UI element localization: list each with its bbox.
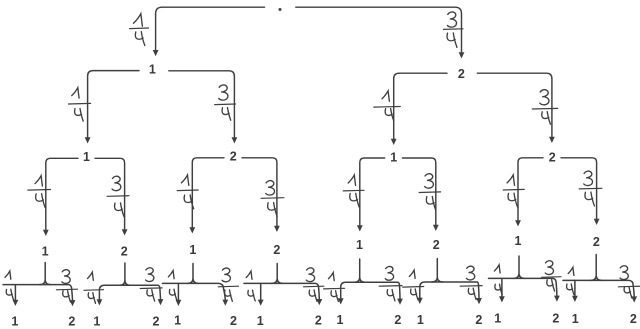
- wire root left branch: [153, 7, 265, 56]
- svg-text:1: 1: [572, 312, 579, 326]
- label P=1/4 level2#2-left: [177, 175, 198, 209]
- svg-text:1: 1: [189, 243, 196, 257]
- wire level3#1 bar+arrows: [3, 285, 75, 307]
- label P=1/4 level3#3-left: [168, 271, 176, 300]
- svg-text:2: 2: [549, 151, 556, 165]
- svg-text:2: 2: [630, 312, 637, 326]
- label P=1/4 node1-left: [69, 88, 91, 121]
- wire level2#1 right branch: [95, 158, 128, 235]
- label P=3/4 level3#7-right: [542, 261, 561, 291]
- svg-text:2: 2: [315, 314, 322, 328]
- wire level3#1 stub: [40, 263, 51, 285]
- label P=3/4 node2-right: [532, 90, 557, 125]
- label P=1/4 level2#4-left: [503, 175, 524, 207]
- svg-text:2: 2: [433, 238, 440, 252]
- wire level2#2 left branch: [189, 158, 224, 234]
- wire level3#5 stub: [354, 259, 365, 282]
- svg-text:2: 2: [153, 315, 160, 329]
- wire level3#6 stub: [432, 259, 443, 283]
- wire root right branch: [296, 7, 465, 58]
- wire level3#8 stub: [591, 255, 602, 281]
- label P=3/4 level3#5-right: [379, 266, 402, 300]
- label P=3/4 root-right: [444, 12, 464, 47]
- svg-text:2: 2: [552, 312, 559, 326]
- svg-text:1: 1: [174, 314, 181, 328]
- wire level3#2 bar+arrows: [97, 285, 164, 305]
- svg-text:2: 2: [230, 150, 237, 164]
- label P=3/4 level2#2-right: [261, 181, 284, 217]
- wire level2#3 right branch: [403, 158, 439, 231]
- svg-text:2: 2: [121, 244, 128, 258]
- wire level3#8 bar+arrows: [563, 280, 637, 302]
- wire level2#4 left branch: [515, 158, 543, 227]
- wire level3#2 stub: [119, 263, 130, 285]
- wire node1 left branch: [85, 71, 139, 144]
- svg-text:2: 2: [273, 243, 280, 257]
- wire node2 left branch: [391, 73, 447, 145]
- label P=3/4 level2#4-right: [579, 171, 602, 206]
- wire level2#1 left branch: [43, 158, 78, 236]
- svg-text:2: 2: [394, 313, 401, 327]
- wire level3#4 stub: [272, 264, 283, 284]
- svg-text:1: 1: [494, 311, 501, 325]
- svg-text:1: 1: [390, 151, 397, 165]
- label P=1/4 node2-left: [374, 91, 401, 121]
- label P=3/4 level3#1-right: [56, 270, 77, 302]
- label P=3/4 level3#2-right: [140, 268, 162, 301]
- wire level2#4 right branch: [561, 158, 600, 225]
- label P=3/4 level3#4-right: [304, 268, 324, 301]
- label P=1/4 level3#1-left: [5, 271, 13, 300]
- svg-text:2: 2: [230, 314, 237, 328]
- wire level2#3 left branch: [357, 158, 385, 232]
- root start node (dot): [279, 8, 282, 11]
- label P=1/4 level2#1-left: [28, 176, 51, 208]
- svg-text:2: 2: [68, 315, 75, 329]
- wire level3#3 stub: [188, 264, 199, 284]
- svg-text:1: 1: [417, 313, 424, 327]
- label P=1/4 level3#5-left: [324, 273, 345, 302]
- label P=1/4 level3#8-left: [567, 267, 574, 294]
- wire level3#3 bar+arrows: [163, 283, 229, 306]
- wire node1 right branch: [169, 71, 238, 144]
- label P=1/4 level3#7-left: [494, 265, 502, 295]
- svg-text:1: 1: [83, 150, 90, 164]
- svg-text:2: 2: [593, 235, 600, 249]
- wire level3#4 bar+arrows: [244, 283, 322, 305]
- label P=3/4 level3#8-right: [618, 266, 640, 298]
- label P=1/4 level3#2-left: [84, 272, 104, 303]
- label P=3/4 level2#3-right: [419, 174, 440, 211]
- label P=1/4 level3#6-left: [403, 270, 424, 299]
- svg-text:1: 1: [42, 244, 49, 258]
- wire level3#6 bar+arrows: [417, 282, 482, 304]
- label P=1/4 level2#3-left: [343, 175, 364, 207]
- wire node2 right branch: [477, 73, 554, 143]
- svg-text:1: 1: [257, 314, 264, 328]
- label P=3/4 node1-right: [215, 85, 236, 120]
- wire level2#2 right branch: [242, 158, 280, 232]
- svg-text:1: 1: [11, 314, 18, 328]
- svg-text:1: 1: [356, 238, 363, 252]
- svg-text:1: 1: [515, 234, 522, 248]
- svg-text:1: 1: [149, 63, 156, 77]
- wire level3#5 bar+arrows: [338, 282, 403, 305]
- label P=3/4 level3#3-right: [218, 268, 238, 301]
- wire level3#7 bar+arrows: [489, 278, 560, 302]
- wire level3#7 stub: [514, 256, 525, 278]
- label P=3/4 level3#6-right: [460, 266, 482, 299]
- svg-text:1: 1: [337, 313, 344, 327]
- svg-text:1: 1: [93, 315, 100, 329]
- label P=3/4 level2#1-right: [107, 176, 129, 217]
- label P=1/4 root-left: [130, 14, 149, 46]
- svg-text:2: 2: [458, 67, 465, 81]
- svg-text:2: 2: [475, 313, 482, 327]
- label P=1/4 level3#4-left: [246, 271, 255, 301]
